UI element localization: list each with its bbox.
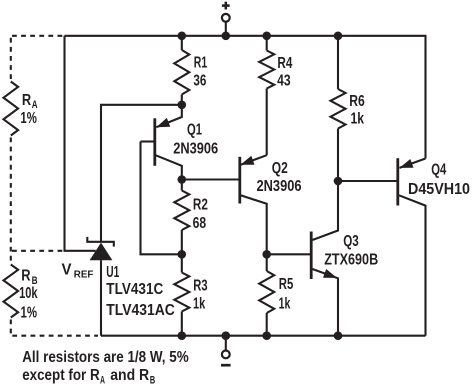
- svg-text:V: V: [62, 262, 73, 279]
- svg-text:TLV431C: TLV431C: [106, 281, 163, 298]
- wire top positive rail: [65, 36, 426, 159]
- resistor R2: [181, 180, 183, 191]
- transistor Q4 emitter: [400, 159, 426, 168]
- svg-text:68: 68: [193, 215, 207, 232]
- svg-text:R4: R4: [277, 55, 292, 72]
- resistor RA: [4, 82, 19, 136]
- resistor R4: [266, 36, 268, 51]
- node R5 top / Q3 base: [262, 250, 271, 259]
- svg-text:and R: and R: [110, 367, 149, 384]
- wire U1 anode: [100, 260, 102, 335]
- svg-text:2N3906: 2N3906: [173, 141, 218, 158]
- transistor Q4 emitter arrow: [400, 159, 414, 168]
- resistor R1: [181, 36, 183, 50]
- node minus terminal: [222, 331, 231, 340]
- svg-text:43: 43: [277, 72, 291, 89]
- transistor Q1 body: [153, 118, 156, 166]
- node plus terminal: [222, 32, 231, 41]
- svg-text:2N3906: 2N3906: [257, 178, 302, 195]
- transistor Q3 collector: [312, 181, 338, 240]
- svg-text:1k: 1k: [351, 111, 365, 128]
- svg-text:1%: 1%: [20, 110, 37, 127]
- wire right collector edge Q4: [399, 195, 426, 335]
- resistor RB: [4, 265, 19, 318]
- transistor Q3 emitter: [312, 269, 338, 336]
- terminal minus: [225, 336, 227, 351]
- svg-text:R6: R6: [349, 93, 365, 110]
- svg-text:REF: REF: [74, 269, 94, 281]
- transistor Q2 collector: [241, 195, 267, 254]
- node R6 top: [334, 32, 343, 41]
- wire dashed RA vertical: [10, 38, 12, 80]
- svg-text:36: 36: [193, 73, 206, 90]
- svg-text:TLV431AC: TLV431AC: [106, 302, 175, 319]
- wire dashed RA to RB: [10, 138, 12, 264]
- svg-text:B: B: [150, 374, 156, 386]
- svg-text:A: A: [32, 99, 38, 111]
- node R4 top: [262, 32, 271, 41]
- resistor R3: [181, 254, 183, 272]
- svg-text:R: R: [21, 268, 30, 285]
- wire VREF node: [65, 36, 96, 251]
- shunt reference U1 anode triangle: [90, 243, 113, 261]
- svg-text:except for R: except for R: [22, 367, 100, 384]
- svg-text:Q4: Q4: [431, 161, 446, 178]
- node R6 bottom / Q4 base: [334, 177, 343, 186]
- svg-text:R5: R5: [279, 276, 294, 293]
- svg-text:10k: 10k: [19, 285, 38, 302]
- shunt reference U1 symbol: [87, 237, 114, 247]
- resistor R5: [266, 254, 268, 271]
- transistor Q1 emitter arrow: [156, 118, 170, 127]
- svg-text:ZTX690B: ZTX690B: [324, 252, 378, 269]
- node Q1 collector / Q2 base: [178, 175, 187, 184]
- terminal plus: [225, 22, 227, 36]
- svg-text:R2: R2: [193, 196, 208, 213]
- wire dashed vref tap: [12, 250, 63, 252]
- svg-text:1%: 1%: [21, 304, 38, 321]
- svg-text:R: R: [22, 92, 31, 109]
- node R1 top: [178, 32, 187, 41]
- transistor Q4 body: [396, 158, 399, 205]
- transistor Q1 collector: [156, 155, 182, 179]
- svg-text:Q3: Q3: [343, 233, 359, 250]
- node U1 cathode / Q1 emitter: [178, 101, 187, 110]
- transistor Q1 emitter: [156, 105, 182, 127]
- wire Q1 base feedback: [141, 142, 182, 255]
- node R5 bottom: [262, 331, 271, 340]
- svg-text:1k: 1k: [193, 295, 205, 312]
- transistor Q3 emitter arrow: [323, 269, 337, 278]
- svg-text:A: A: [100, 374, 105, 386]
- svg-text:Q1: Q1: [187, 121, 202, 138]
- svg-text:Q2: Q2: [272, 160, 288, 177]
- transistor Q3 base: [267, 253, 312, 255]
- wire dashed top to RA: [12, 35, 64, 37]
- svg-text:U1: U1: [106, 264, 119, 281]
- transistor Q2 emitter: [241, 155, 267, 165]
- transistor Q2 base: [182, 178, 240, 180]
- transistor Q3 body: [310, 232, 313, 280]
- resistor R6: [337, 36, 339, 89]
- svg-text:1k: 1k: [279, 295, 291, 312]
- transistor Q4 base: [338, 180, 398, 182]
- transistor Q2 body: [238, 157, 241, 204]
- transistor Q2 emitter arrow: [241, 156, 255, 165]
- svg-text:R3: R3: [193, 277, 208, 294]
- svg-text:All resistors are 1/8 W, 5%: All resistors are 1/8 W, 5%: [22, 349, 189, 366]
- wire dashed RB to bottom: [10, 320, 12, 336]
- svg-text:D45VH10: D45VH10: [408, 181, 470, 198]
- node R3 bottom: [178, 331, 187, 340]
- transistor Q1 base: [141, 140, 155, 142]
- svg-text:R1: R1: [194, 55, 208, 72]
- wire U1 cathode: [101, 105, 182, 242]
- wire dashed bottom rail: [12, 335, 98, 337]
- node Q3 emitter bottom: [334, 331, 343, 340]
- node R2 R3 junction: [178, 250, 187, 259]
- wire bottom negative rail: [101, 335, 426, 337]
